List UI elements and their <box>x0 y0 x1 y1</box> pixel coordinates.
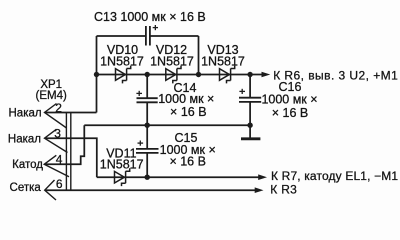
svg-text:1N5817: 1N5817 <box>150 55 194 69</box>
svg-text:К R3: К R3 <box>270 182 297 196</box>
svg-text:Накал: Накал <box>9 108 42 120</box>
node A junction dot (bus left) <box>94 72 99 77</box>
output arrow to R3 <box>255 187 264 193</box>
svg-text:6: 6 <box>56 177 63 191</box>
svg-text:1N5817: 1N5817 <box>201 55 245 69</box>
wire pin 3 horizontal and down to VD11 row <box>45 138 97 177</box>
svg-text:Катод: Катод <box>12 159 43 171</box>
junction dot bus / C13 right leg <box>196 72 201 77</box>
svg-text:К R6, выв. 3 U2, +М1: К R6, выв. 3 U2, +М1 <box>273 68 398 82</box>
svg-text:2: 2 <box>55 101 62 115</box>
svg-text:1N5817: 1N5817 <box>100 157 144 171</box>
junction dot bus / C16 <box>247 72 252 77</box>
svg-text:1N5817: 1N5817 <box>100 55 144 69</box>
C13 polarity plus <box>153 25 158 30</box>
svg-text:Сетка: Сетка <box>10 182 42 194</box>
pin 4 chevron <box>44 155 69 176</box>
wire pin 6 row to output arrow <box>45 189 259 191</box>
capacitor C16 <box>239 98 261 102</box>
wire connector double line 2 <box>70 113 72 191</box>
wire left vertical (node A) <box>96 36 98 113</box>
svg-text:4: 4 <box>56 152 63 166</box>
output arrow to R7 <box>258 174 267 180</box>
pin 6 chevron <box>45 180 56 200</box>
wire pin 2 horizontal <box>45 112 97 114</box>
wire top-right horizontal from C13 to right corner <box>151 35 199 37</box>
wire C15 branch upper <box>146 125 148 149</box>
junction dot middle wire / C16-ground <box>247 123 252 128</box>
wire C16 branch upper <box>249 75 251 98</box>
svg-text:1000 мк ×: 1000 мк × <box>261 93 317 107</box>
svg-text:C13 1000 мк × 16 В: C13 1000 мк × 16 В <box>94 10 206 24</box>
wire C15 branch lower <box>146 153 148 177</box>
svg-text:К R7, катоду EL1, −М1: К R7, катоду EL1, −М1 <box>271 169 398 183</box>
capacitor C14 <box>137 98 158 102</box>
svg-text:(ЕМ4): (ЕМ4) <box>36 90 67 102</box>
junction dot middle wire / C14-C15 <box>145 123 150 128</box>
wire pin 4 route up to middle wire <box>45 125 84 164</box>
wire C14 branch lower <box>146 102 148 125</box>
capacitor C13 <box>146 26 150 46</box>
ground <box>241 137 260 140</box>
output arrow to R6 <box>262 72 271 78</box>
svg-text:× 16 В: × 16 В <box>170 105 207 119</box>
diode VD13 (Schottky) <box>220 66 235 84</box>
wire C16 branch lower <box>249 102 251 125</box>
svg-text:× 16 В: × 16 В <box>169 155 206 169</box>
wire ground stem <box>249 125 251 137</box>
C14 polarity plus <box>136 91 142 96</box>
wire VD11 row to output arrow <box>97 176 262 178</box>
svg-text:XP1: XP1 <box>40 79 62 91</box>
wire middle horizontal (node at y=125) <box>84 124 250 126</box>
diode VD11 (Schottky) <box>115 168 130 186</box>
C16 polarity plus <box>239 89 245 94</box>
capacitor C15 <box>136 149 159 153</box>
wire C13 right leg down to diode bus <box>198 36 200 75</box>
wire C14 branch upper <box>146 75 148 99</box>
wire diode bus <box>97 74 263 76</box>
diode VD10 (Schottky) <box>116 66 131 84</box>
pin 2 chevron <box>45 104 67 129</box>
svg-text:3: 3 <box>54 127 61 141</box>
wire connector double line 1 <box>65 113 67 191</box>
svg-text:× 16 В: × 16 В <box>272 106 309 120</box>
junction dot bus / C14 <box>145 72 150 77</box>
diode VD12 (Schottky) <box>166 66 181 84</box>
junction dot VD11 row / C15 <box>145 175 150 180</box>
pin 3 chevron <box>45 129 68 152</box>
wire top-left horizontal from left vertical to C13 <box>97 35 146 37</box>
C15 polarity plus <box>138 141 144 146</box>
svg-text:Накал: Накал <box>8 134 41 146</box>
